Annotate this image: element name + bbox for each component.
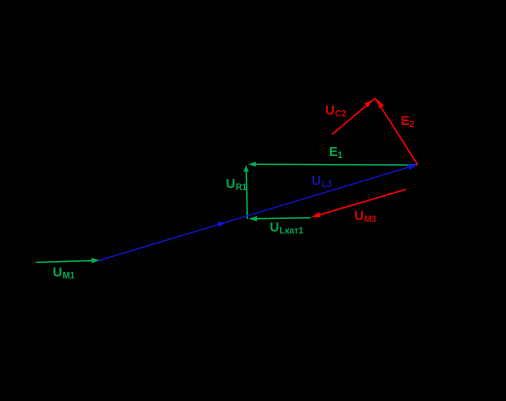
label E_2 [401,113,415,129]
label U_M1 [53,264,75,280]
label U_C2 [325,103,346,119]
svg-text:C2: C2 [335,109,346,119]
svg-text:U: U [354,208,363,223]
vector U_Lkat1 [248,216,310,221]
label U_L3 [312,173,332,189]
vector U_R1 [244,165,249,219]
vector E_2 [375,98,418,165]
svg-text:L3: L3 [322,179,332,189]
label U_R1 [226,176,247,192]
svg-text:U: U [325,103,334,118]
svg-text:1: 1 [338,150,343,160]
svg-text:2: 2 [409,119,414,129]
vector U_M3 [311,189,406,217]
label U_Lkat1 [270,219,304,235]
svg-text:R1: R1 [236,182,247,192]
svg-text:M1: M1 [63,270,75,280]
svg-text:U: U [226,176,235,191]
vector U_L3 (blue, long, with mid arrowhead) [99,164,418,260]
vector U_M1 [36,258,100,263]
vector U_C2 [332,98,375,134]
svg-text:U: U [270,219,279,234]
svg-text:Lкат1: Lкат1 [280,225,304,235]
label E_1 [329,144,343,160]
vector E_1 [248,162,417,167]
label U_M3 [354,208,376,224]
svg-text:U: U [312,173,321,188]
svg-text:M3: M3 [364,214,376,224]
svg-text:U: U [53,264,62,279]
